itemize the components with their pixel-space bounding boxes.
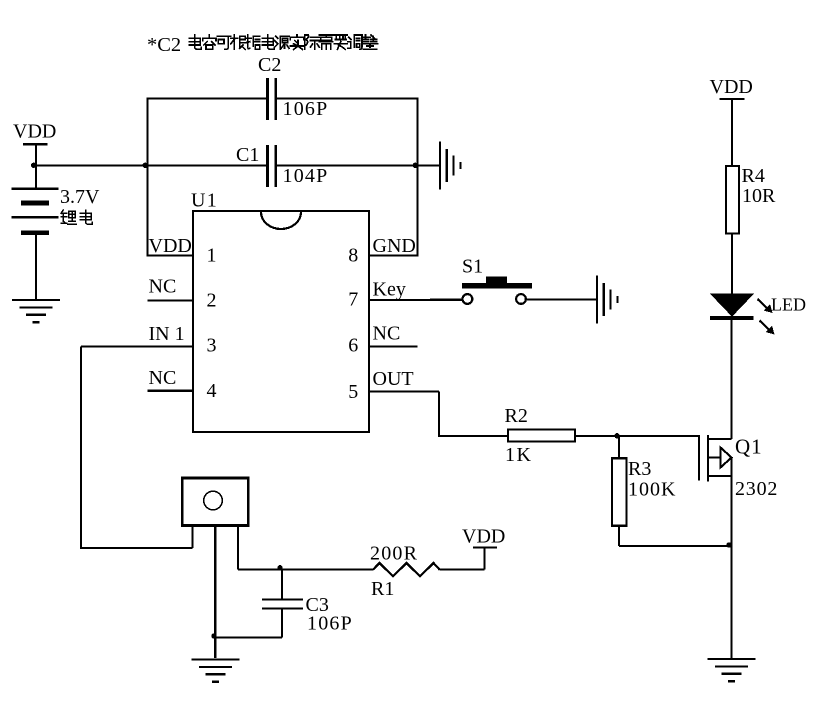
LED label <box>771 295 806 315</box>
wire R1 to VDD <box>440 548 485 570</box>
pin 6 label NC <box>373 322 401 344</box>
svg-text:106P: 106P <box>283 98 329 120</box>
transistor Q1 (NMOS 2302) <box>699 435 732 482</box>
wire battery to ground <box>35 233 37 300</box>
junction R2/R3 <box>614 433 619 438</box>
svg-text:4: 4 <box>207 380 217 402</box>
svg-text:3.7V: 3.7V <box>60 186 100 208</box>
pin 5 number <box>348 381 358 403</box>
ground (battery) <box>12 300 60 322</box>
capacitor C2 <box>267 78 275 120</box>
ground (right of S1) <box>597 275 617 323</box>
svg-text:2: 2 <box>207 289 217 311</box>
pin 7 label Key <box>373 279 406 301</box>
R3 reference label <box>628 458 651 480</box>
R4 value 10R <box>742 185 776 207</box>
svg-text:VDD: VDD <box>13 121 56 143</box>
wire OUT to R2 <box>438 435 508 437</box>
pin 4 label NC <box>149 367 177 389</box>
svg-text:R4: R4 <box>742 165 765 187</box>
svg-text:OUT: OUT <box>373 368 414 390</box>
junction battery/rail <box>31 163 36 168</box>
wire R4 to LED <box>731 234 733 297</box>
U1 reference label <box>191 190 218 212</box>
C3 value 106P <box>307 613 353 635</box>
svg-text:R3: R3 <box>628 458 651 480</box>
wire right branch x=418 <box>417 97 419 256</box>
svg-text:6: 6 <box>348 334 358 356</box>
pin 3 label IN1 <box>149 323 185 345</box>
svg-text:NC: NC <box>149 367 177 389</box>
wire R3 bottom <box>618 526 620 546</box>
wire C2 top right <box>276 97 418 99</box>
wire R2 to gate <box>575 435 699 437</box>
C2 value 106P <box>283 98 329 120</box>
IC U1 <box>193 211 369 432</box>
ground (Q1 source) <box>708 659 756 681</box>
pin 5 label OUT <box>373 368 414 390</box>
pin 4 number <box>207 380 217 402</box>
wire VDD rail (left of C1) <box>34 164 268 166</box>
pin 4 wire (NC) <box>148 390 194 392</box>
svg-text:S1: S1 <box>462 256 483 278</box>
svg-text:U1: U1 <box>191 190 218 212</box>
R2 value 1K <box>505 444 532 466</box>
R3 value 100K <box>628 479 676 501</box>
power flag VDD (battery) <box>13 121 56 145</box>
svg-text:C2: C2 <box>258 54 281 76</box>
resistor R4 <box>726 166 739 234</box>
svg-text:2302: 2302 <box>735 478 778 500</box>
pin 6 wire (NC) <box>369 345 418 347</box>
junction sensor leg/C3 bottom <box>211 633 216 638</box>
R1 value 200R <box>370 543 418 565</box>
pin 2 number <box>207 289 217 311</box>
power flag VDD (top right) <box>710 76 753 99</box>
wire R3 top <box>618 436 620 459</box>
junction rail/left branch <box>143 163 148 168</box>
pin 8 label GND <box>373 235 416 257</box>
wire IN1 down <box>80 346 82 548</box>
sensor middle leg <box>214 526 216 659</box>
wire Q1 source down <box>730 458 732 660</box>
pin 5 wire (OUT) <box>369 390 439 392</box>
resistor R1 (zigzag) <box>373 563 440 576</box>
battery value 3.7V <box>60 186 100 208</box>
wire C3 top <box>281 570 283 600</box>
capacitor C1 <box>267 145 275 187</box>
C2 reference label <box>258 54 281 76</box>
wire S1 to ground <box>527 298 598 300</box>
battery BT1 3.7V <box>12 189 59 233</box>
C1 value 104P <box>283 165 329 187</box>
pin 8 number <box>348 245 358 267</box>
pin 3 wire (IN1) <box>81 345 193 347</box>
svg-text:NC: NC <box>149 276 177 298</box>
svg-text:C1: C1 <box>236 144 259 166</box>
svg-text:Key: Key <box>373 279 406 301</box>
pin 1 number <box>207 245 217 267</box>
svg-text:VDD: VDD <box>462 526 505 548</box>
C1 reference label <box>236 144 259 166</box>
pin 2 label NC <box>149 276 177 298</box>
sensor left leg <box>191 526 193 549</box>
svg-text:R1: R1 <box>371 578 394 600</box>
pin 3 number <box>207 334 217 356</box>
sensor right leg <box>237 526 239 570</box>
resistor R3 <box>612 458 627 525</box>
svg-text:Q1: Q1 <box>735 435 763 459</box>
switch S1 <box>462 277 532 304</box>
note text: *C2 capacitor adjust note <box>147 34 378 56</box>
svg-text:100K: 100K <box>628 479 676 501</box>
svg-text:8: 8 <box>348 245 358 267</box>
junction source/R3 <box>726 542 731 547</box>
svg-text:VDD: VDD <box>710 76 753 98</box>
svg-text:NC: NC <box>373 322 401 344</box>
junction C3/R1 wire <box>277 565 282 570</box>
svg-text:*C2: *C2 <box>147 34 181 56</box>
wire left branch x=147.5 <box>146 97 148 256</box>
svg-text:R2: R2 <box>505 405 528 427</box>
Q1 reference label <box>735 435 763 459</box>
pin 1 label VDD <box>149 235 192 257</box>
ground (sensor) <box>191 660 239 682</box>
svg-text:106P: 106P <box>307 613 353 635</box>
wire IN1 to sensor <box>80 547 193 549</box>
capacitor C3 <box>262 600 303 609</box>
pin 7 number <box>348 288 358 310</box>
wire VDD rail (right of C1) <box>276 164 440 166</box>
svg-text:1K: 1K <box>505 444 532 466</box>
wire C2 top left <box>148 97 268 99</box>
junction rail/right branch <box>413 163 418 168</box>
svg-text:5: 5 <box>348 381 358 403</box>
svg-text:104P: 104P <box>283 165 329 187</box>
wire VDD to R4 <box>731 99 733 166</box>
wire sensor to R1 <box>238 569 373 571</box>
wire C3 bottom <box>215 609 282 638</box>
resistor R2 <box>508 430 575 442</box>
svg-text:3: 3 <box>207 334 217 356</box>
svg-text:7: 7 <box>348 288 358 310</box>
pin 1 wire (VDD) <box>148 255 194 257</box>
Q1 value 2302 <box>735 478 778 500</box>
R1 reference label <box>371 578 394 600</box>
pin 6 number <box>348 334 358 356</box>
svg-text:VDD: VDD <box>149 235 192 257</box>
pin 2 wire (NC) <box>148 299 194 301</box>
R4 reference label <box>742 165 765 187</box>
svg-text:LED: LED <box>771 295 806 315</box>
C3 reference label <box>306 594 329 616</box>
R2 reference label <box>505 405 528 427</box>
svg-text:1: 1 <box>207 245 217 267</box>
svg-text:IN 1: IN 1 <box>149 323 185 345</box>
wire VDD flag to rail <box>35 144 37 190</box>
S1 reference label <box>462 256 483 278</box>
wire Q1 drain <box>730 320 732 439</box>
microphone MK1 <box>182 478 248 526</box>
pin 8 wire (GND) <box>369 255 418 257</box>
wire OUT down <box>438 391 440 436</box>
svg-text:200R: 200R <box>370 543 418 565</box>
pin 7 wire (Key) <box>369 299 462 301</box>
LED D1 <box>710 294 775 335</box>
svg-text:GND: GND <box>373 235 416 257</box>
power flag VDD (bottom) <box>462 526 505 548</box>
battery label lithium <box>61 210 92 224</box>
wire R3 to source <box>619 545 732 547</box>
svg-text:10R: 10R <box>742 185 776 207</box>
ground (right of C1) <box>440 141 460 189</box>
